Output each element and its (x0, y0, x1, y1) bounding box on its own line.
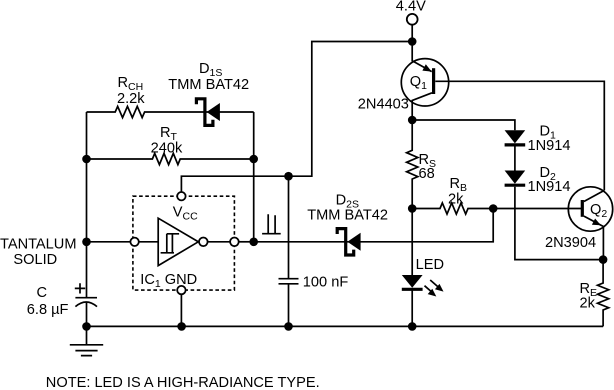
pin inverter output bubble (199, 238, 208, 247)
label D1 (540, 124, 557, 142)
svg-text:TMM BAT42: TMM BAT42 (168, 77, 249, 93)
svg-text:1N914: 1N914 (528, 179, 571, 195)
node 4.4V supply terminal (407, 14, 418, 25)
wire C bottom (86, 303, 88, 327)
wire input to IC (87, 241, 131, 243)
svg-text:68: 68 (419, 166, 435, 182)
svg-text:Q1: Q1 (410, 74, 427, 92)
wire terminal to junction (411, 25, 413, 42)
wire left column (86, 112, 88, 298)
label IC1 GND (140, 272, 197, 290)
svg-text:1N914: 1N914 (528, 138, 571, 154)
node rail LED junction (408, 322, 417, 331)
transistor Q2 emitter (584, 216, 604, 226)
label D2S (336, 192, 359, 210)
label RB (450, 176, 468, 194)
wire D2S feedback loop (254, 209, 494, 242)
hysteresis symbol (161, 234, 180, 253)
wire base to Q2 (493, 208, 581, 210)
label LED (416, 257, 444, 273)
transistor Q1 collector (412, 93, 432, 120)
node VCC branch junction (284, 172, 293, 181)
node C input junction (82, 238, 91, 247)
label 68 (419, 166, 435, 182)
label Q1 (410, 74, 427, 92)
label 2k (RB) (448, 192, 464, 208)
wire D1 to D2 (514, 146, 516, 170)
label 240k (151, 140, 183, 156)
label TANTALUM SOLID (0, 237, 76, 269)
resistor RE 2k (598, 260, 609, 327)
diode D2 1N914 (505, 171, 526, 186)
label RS (419, 152, 437, 170)
wire emitter of Q1 from supply (412, 42, 432, 72)
wire 100nF top (288, 176, 290, 278)
wire LED cathode (411, 290, 413, 327)
label TMM BAT42 (D2S) (307, 207, 388, 223)
wire to D1 (412, 120, 515, 130)
diode D1S TMM BAT42 (196, 99, 220, 126)
node RB/base junction (489, 204, 498, 213)
node rail 100nF junction (284, 322, 293, 331)
svg-text:2.2k: 2.2k (117, 91, 145, 107)
wire bubble to output pin (208, 241, 231, 243)
label 100 nF (303, 275, 349, 291)
node emitter/diode junction (599, 255, 608, 264)
svg-text:VCC: VCC (173, 205, 198, 223)
svg-text:240k: 240k (151, 140, 183, 156)
wire ground rail (87, 325, 604, 327)
label C (37, 285, 48, 301)
polarity plus sign (75, 283, 85, 293)
resistor RT 240k (87, 153, 254, 164)
label 2k (RE) (580, 296, 596, 312)
diode D1 1N914 (505, 130, 526, 145)
resistor RCH 2.2k (87, 106, 254, 117)
label RCH (118, 75, 144, 93)
wire output pin to junction (239, 241, 254, 243)
wire pin to triangle (139, 241, 158, 243)
svg-text:NOTE: LED IS A HIGH-RADIANCE T: NOTE: LED IS A HIGH-RADIANCE TYPE. (46, 375, 320, 390)
wire Q1 base to Q2 collector (435, 81, 604, 190)
pin VCC (177, 192, 185, 200)
wire LED anode (411, 209, 413, 276)
node rail C junction (82, 322, 91, 331)
wire right feedback column (253, 112, 255, 242)
node IC output junction (249, 238, 258, 247)
pin IC output (230, 238, 239, 247)
transistor Q2 collector (584, 190, 604, 201)
transistor Q2 base bar (581, 200, 584, 217)
transistor Q1 circle (401, 59, 448, 106)
svg-text:TANTALUM: TANTALUM (0, 237, 76, 253)
label 1N914 (D2) (528, 179, 571, 195)
ground (70, 326, 103, 355)
pin IC input (130, 238, 138, 246)
resistor RS 68 (407, 120, 418, 209)
wire D2 to emitter column (515, 187, 603, 260)
pin GND (177, 286, 185, 294)
node RS bottom junction (408, 204, 417, 213)
wire GND pin to rail (180, 294, 182, 326)
transistor Q1 emitter arrow (422, 64, 431, 71)
svg-text:4.4V: 4.4V (396, 0, 426, 14)
resistor RB 2k (412, 203, 493, 214)
label RT (160, 125, 178, 143)
svg-text:2N3904: 2N3904 (545, 235, 596, 251)
label TMM BAT42 (D1S) (168, 77, 249, 93)
transistor Q1 base bar (432, 68, 435, 94)
label D1S (199, 61, 222, 79)
label Q2 (590, 202, 607, 220)
transistor Q2 circle (568, 187, 612, 231)
svg-text:IC1 GND: IC1 GND (140, 272, 197, 290)
svg-text:6.8 µF: 6.8 µF (27, 302, 69, 318)
node supply junction (408, 37, 417, 46)
label 2N3904 (545, 235, 596, 251)
label 2N4403 (358, 97, 409, 113)
svg-text:Q2: Q2 (590, 202, 607, 220)
node RT right junction (249, 155, 258, 164)
svg-text:LED: LED (416, 257, 444, 273)
svg-text:100 nF: 100 nF (303, 275, 349, 291)
wire supply rail to IC VCC (181, 42, 412, 193)
svg-text:2N4403: 2N4403 (358, 97, 409, 113)
note text (46, 375, 320, 390)
capacitor C 6.8uF (75, 298, 97, 307)
label 6.8 uF (27, 302, 69, 318)
svg-text:SOLID: SOLID (13, 252, 57, 268)
diode D2S TMM BAT42 (337, 229, 360, 255)
node RT left junction (82, 155, 91, 164)
label 1N914 (D1) (528, 138, 571, 154)
LED (402, 275, 423, 289)
wire 100nF bottom (288, 284, 290, 326)
wire Q2 emitter down (602, 227, 604, 260)
node rail GND junction (177, 322, 186, 331)
label VCC (173, 205, 198, 223)
svg-text:2k: 2k (580, 296, 596, 312)
LED light arrows (425, 280, 444, 297)
svg-text:2k: 2k (448, 192, 464, 208)
label 4.4V (396, 0, 426, 14)
capacitor 100 nF (279, 279, 299, 284)
IC1 dashed package box (133, 196, 235, 290)
svg-text:C: C (37, 285, 48, 301)
label 2.2k (117, 91, 145, 107)
op-amp IC1 Schmitt trigger triangle (158, 218, 198, 265)
node Q1 collector junction (408, 116, 417, 125)
pulse waveform symbol (262, 214, 281, 233)
label RE (580, 281, 598, 299)
label D2 (540, 165, 557, 183)
svg-text:TMM BAT42: TMM BAT42 (307, 207, 388, 223)
